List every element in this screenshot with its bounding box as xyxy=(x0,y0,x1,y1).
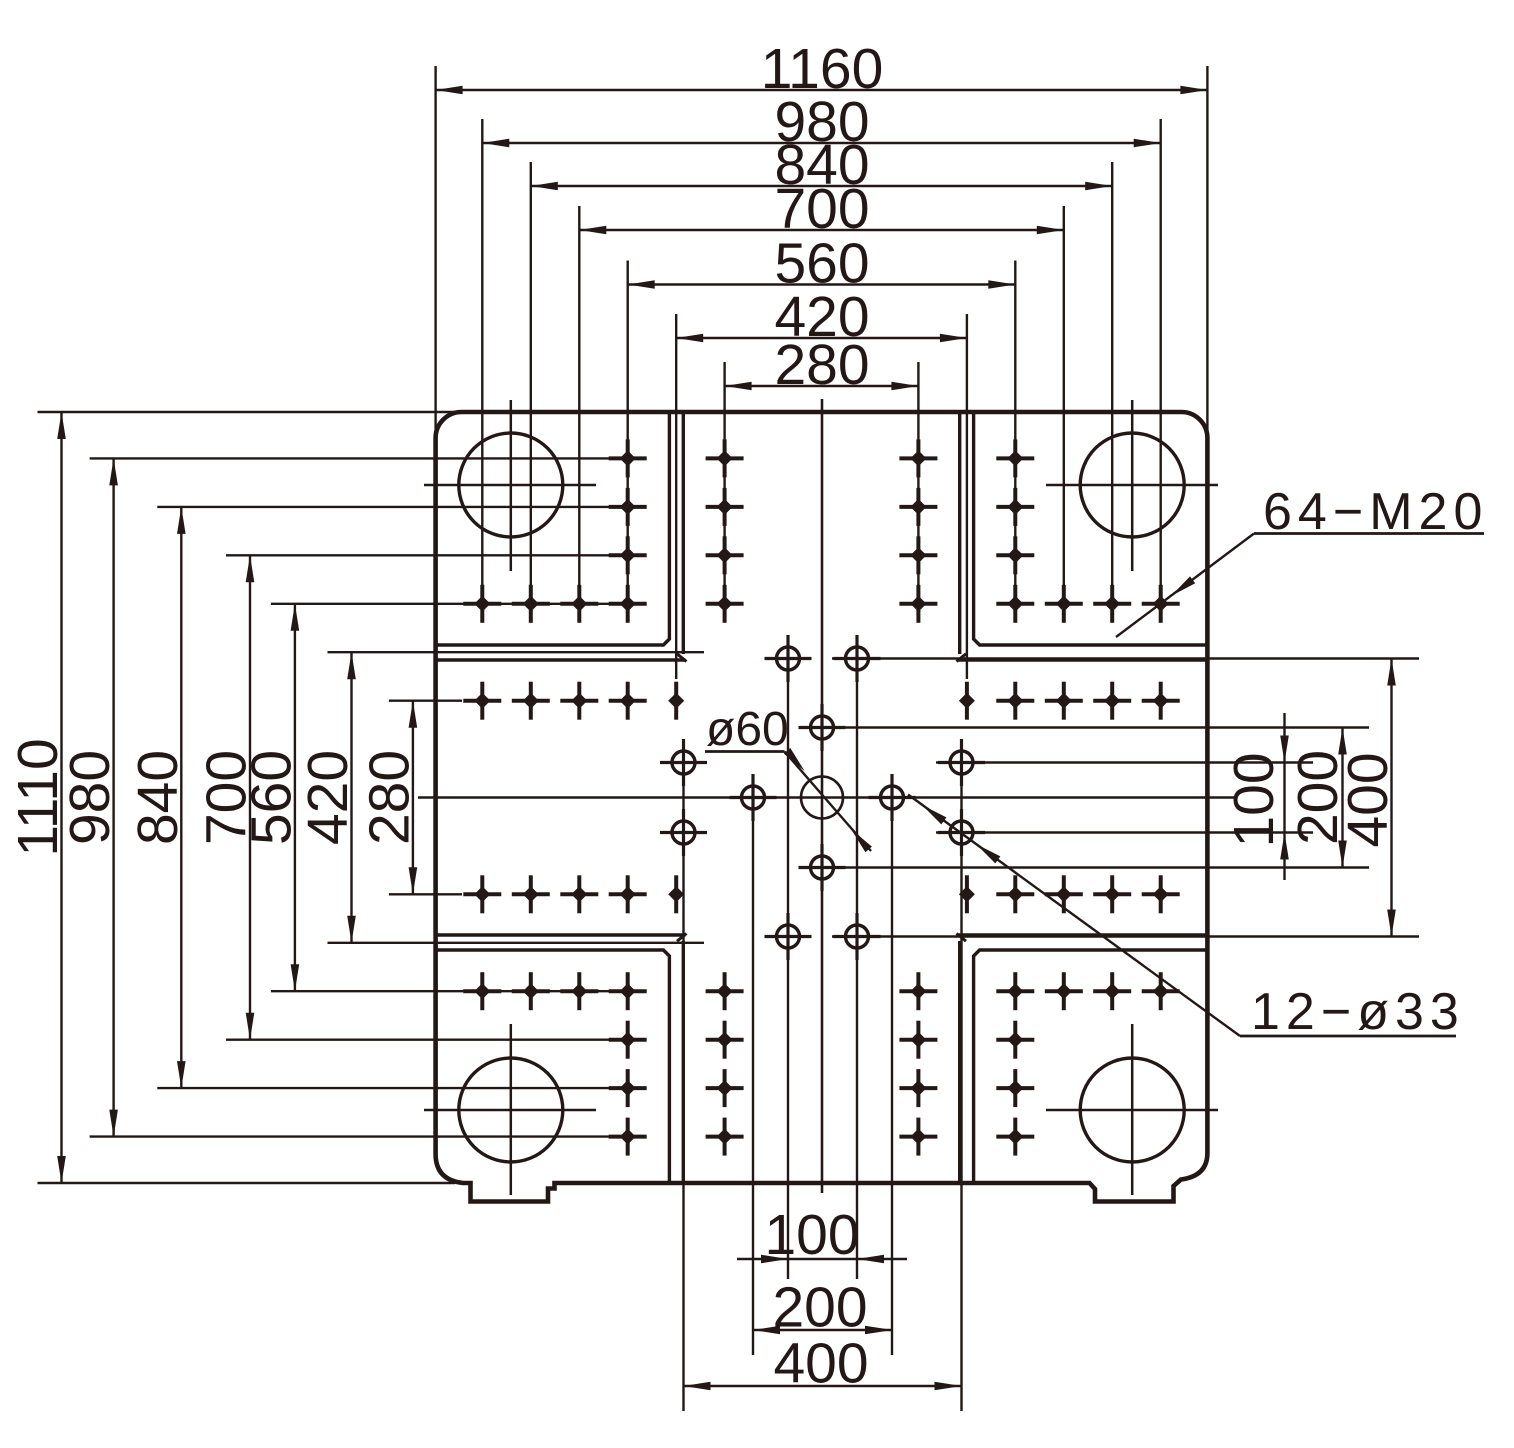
64-M20 tapped hole group (bottom-right quadrant) xyxy=(899,875,1179,1155)
svg-text:ø60: ø60 xyxy=(706,703,789,756)
extension lines of hole pattern to right dims xyxy=(799,659,1419,937)
64-M20 tapped hole group (bottom-left quadrant) xyxy=(463,875,743,1155)
dimension 100 (bottom) xyxy=(737,1203,907,1267)
dimension 840 (top) xyxy=(531,133,1112,622)
mold pad recess corner (bl) xyxy=(436,934,687,1184)
dimension 1110 (left) xyxy=(6,412,455,1183)
dimension 100 (right) xyxy=(1222,713,1289,880)
dimension 400 (bottom) xyxy=(684,1332,962,1396)
svg-text:980: 980 xyxy=(58,750,122,845)
svg-text:100: 100 xyxy=(764,1203,859,1267)
tie-bar hole circle (bottom-left) xyxy=(424,1024,596,1195)
svg-text:840: 840 xyxy=(126,750,190,845)
64-M20 tapped hole group (top-left quadrant) xyxy=(463,439,743,719)
tie-bar hole circle (bottom-right) xyxy=(1046,1024,1218,1195)
dimension 200 (bottom) xyxy=(753,1276,892,1340)
label 12-Ø33 with leader arrows xyxy=(908,795,1465,1042)
extension lines of hole pattern to bottom dims xyxy=(684,635,962,1411)
svg-text:400: 400 xyxy=(1336,752,1400,847)
tie-bar hole circle (top-right) xyxy=(1046,400,1218,571)
64-M20 tapped hole group (top-right quadrant) xyxy=(899,439,1179,719)
12-Ø33 through hole group xyxy=(660,635,985,960)
mold pad recess corner (tr) xyxy=(957,412,1208,662)
dimension 420 (top) xyxy=(676,285,967,679)
dimension 700 (top) xyxy=(579,177,1064,622)
dimension 840 (left) xyxy=(126,507,646,1088)
vertical centerline xyxy=(821,399,824,1193)
dimension 560 (top) xyxy=(628,232,1016,623)
label Ø60 with diameter leader xyxy=(705,703,872,852)
horizontal centerline xyxy=(418,796,1234,798)
svg-text:280: 280 xyxy=(774,333,869,397)
dimension 200 (right) xyxy=(1286,728,1350,868)
svg-text:400: 400 xyxy=(773,1332,868,1396)
dimension 1160 (top) xyxy=(436,37,1208,444)
tie-bar hole circle (top-left) xyxy=(424,400,596,571)
label 64-M20 with leader arrow xyxy=(1116,483,1488,637)
platen plate outline xyxy=(436,412,1208,1202)
dimension 280 (top) xyxy=(725,333,919,622)
dimension 280 (left) xyxy=(357,701,462,895)
svg-text:420: 420 xyxy=(296,750,360,845)
dimension 400 (right) xyxy=(1336,659,1400,937)
mold pad recess corner (tl) xyxy=(436,412,687,662)
center hole Ø60 xyxy=(801,777,843,819)
svg-text:100: 100 xyxy=(1222,752,1286,847)
dimension 700 (left) xyxy=(195,555,647,1039)
svg-text:12−ø33: 12−ø33 xyxy=(1251,983,1465,1041)
mold pad recess corner (br) xyxy=(957,934,1208,1184)
svg-text:560: 560 xyxy=(239,750,303,845)
dimension 560 (left) xyxy=(239,604,646,991)
dimension 420 (left) xyxy=(296,652,704,943)
dimension 980 (left) xyxy=(58,458,646,1136)
svg-text:280: 280 xyxy=(357,750,421,845)
dimension 980 (top) xyxy=(482,90,1160,622)
svg-text:200: 200 xyxy=(772,1276,867,1340)
